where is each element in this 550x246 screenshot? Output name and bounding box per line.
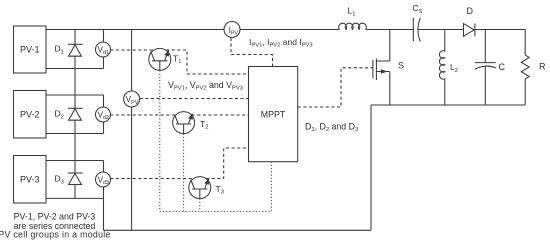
svg-text:IPV1, IPV2 and IPV3: IPV1, IPV2 and IPV3 [249,37,313,49]
svg-text:VPV1, VPV2 and VPV3: VPV1, VPV2 and VPV3 [168,80,243,92]
svg-text:S: S [398,61,404,71]
wire output bottom rail [371,104,525,106]
voltmeter Vd2 [96,95,111,134]
resistor R [521,30,546,106]
capacitor C [475,30,506,106]
wire PV-3 bottom rail [46,197,104,199]
note PV series connection [0,212,111,240]
voltmeter Vd1 [96,30,111,69]
dotted emitter line T1 [159,70,161,211]
wire PV-2 top rail [46,94,104,96]
svg-text:L1: L1 [348,6,356,18]
svg-text:T2: T2 [200,119,208,131]
dotted MPPT return [270,162,272,212]
svg-text:Vd2: Vd2 [98,111,109,122]
dashed signal VPV to MPPT [140,98,249,100]
svg-text:T1: T1 [173,53,181,65]
dashed signal IPV to MPPT [231,38,273,67]
svg-text:Vd3: Vd3 [98,176,109,187]
svg-text:D3: D3 [55,174,64,186]
dashed gate drive MPPT to S [298,68,373,107]
svg-text:IPV: IPV [229,26,239,37]
PV module PV-2 [14,91,47,139]
svg-text:PV cell groups in a module: PV cell groups in a module [0,230,111,240]
voltmeter VPV with measuring line [124,30,140,231]
dotted common bus [160,210,272,212]
dotted emitter line T3 [199,199,201,212]
diode D [464,6,475,36]
svg-text:L2: L2 [450,62,458,74]
svg-text:D2: D2 [55,109,64,121]
PV module PV-1 [14,26,47,73]
svg-text:MPPT: MPPT [261,110,286,120]
svg-text:CS: CS [413,3,423,15]
inductor L2 [439,30,458,106]
svg-text:R: R [539,62,546,72]
controller MPPT [249,67,298,162]
wire top positive rail [46,29,525,31]
ammeter IPV [224,22,240,38]
dotted emitter line T2 [183,134,185,212]
wire diode string column [74,30,76,199]
diode D2 [55,108,83,120]
capacitor Cs [413,3,423,42]
transistor T3 [189,177,224,199]
PV module PV-3 [14,156,47,204]
diode D3 [55,173,83,185]
svg-text:D1: D1 [55,44,64,56]
wire PV-3 top rail [46,160,104,162]
svg-text:VPV: VPV [126,95,139,106]
svg-text:C: C [499,62,506,72]
MOSFET S [373,30,404,106]
svg-text:PV-2: PV-2 [20,110,40,120]
wire PV-2 bottom rail [46,133,104,135]
dashed signal Vd2 to T2 to MPPT [110,114,248,116]
svg-text:D1, D2 and D3: D1, D2 and D3 [305,121,358,133]
wire PV-1 bottom rail [46,68,104,70]
inductor L1 [339,6,367,30]
wire negative return left [104,105,372,230]
svg-text:PV-1: PV-1 [20,45,40,55]
diode D1 [55,44,83,57]
dashed signal Vd3 to T3 to MPPT [110,148,248,179]
svg-text:PV-1, PV-2 and PV-3: PV-1, PV-2 and PV-3 [14,212,96,222]
svg-text:T3: T3 [216,184,224,196]
transistor T1 [149,48,182,70]
svg-text:D: D [467,6,474,16]
svg-text:Vd1: Vd1 [98,46,109,57]
dashed signal Vd1 to T1 to MPPT [110,50,248,74]
svg-text:PV-3: PV-3 [20,175,40,185]
transistor T2 [173,112,209,134]
voltmeter Vd3 [96,161,111,199]
